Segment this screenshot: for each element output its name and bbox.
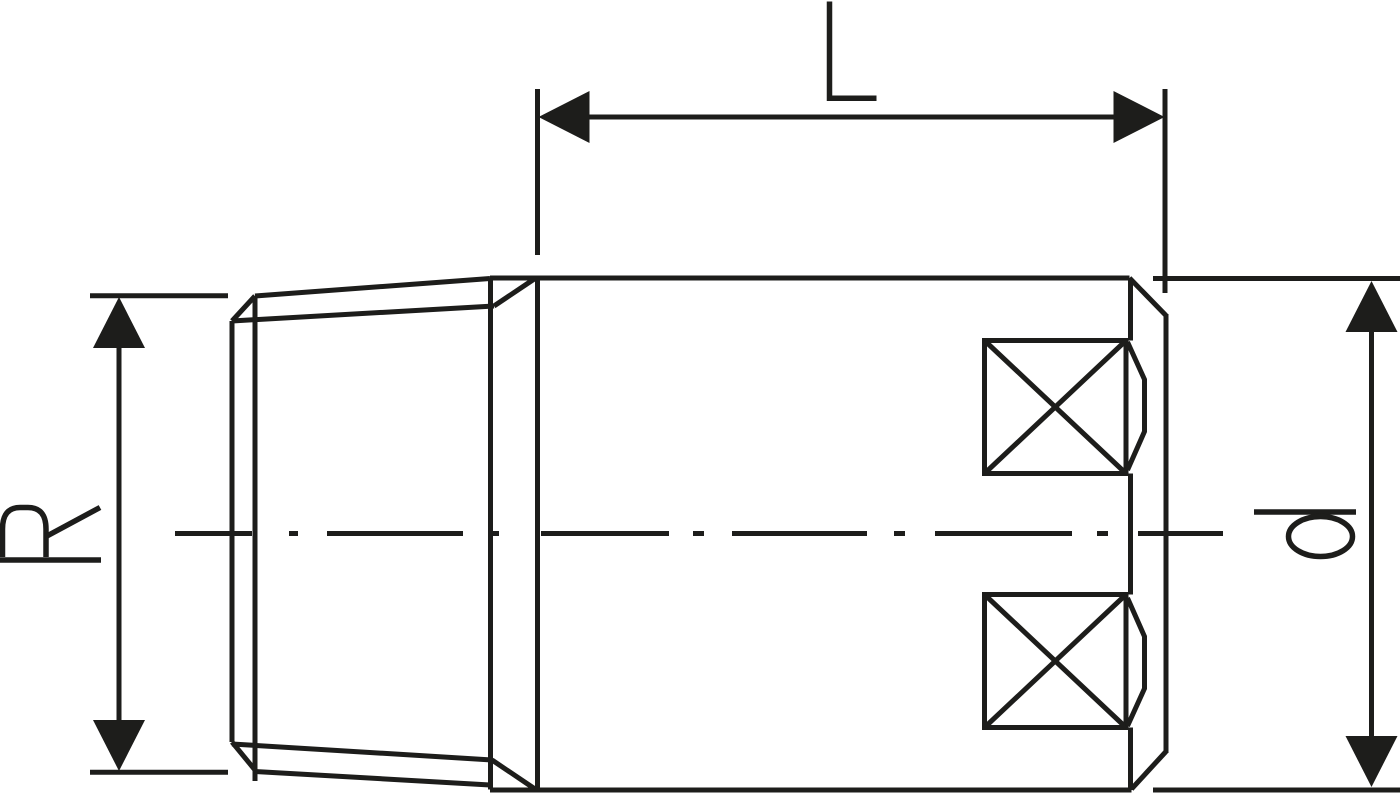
extension line R top	[90, 293, 228, 298]
dimension line L	[564, 115, 1140, 120]
extension line L right	[1163, 89, 1168, 293]
socket left edge	[535, 278, 540, 790]
thread end chamfer top	[232, 296, 255, 321]
arrowhead L left	[539, 91, 590, 143]
socket mouth edge lower	[1128, 728, 1133, 791]
arrowhead R top	[93, 297, 145, 348]
thread chamfer edge (second vertical)	[253, 296, 258, 781]
extension line L left	[535, 89, 540, 255]
socket top edge	[490, 276, 1130, 281]
thread crest line bottom	[255, 772, 490, 786]
label L	[830, 2, 877, 99]
dimension line d	[1369, 306, 1374, 762]
seal ring section upper (crossed box)	[985, 341, 1127, 474]
bore chamfer bottom	[492, 760, 535, 789]
press bead lower	[1128, 598, 1145, 726]
arrowhead L right	[1114, 91, 1165, 143]
socket bottom edge	[490, 788, 1132, 793]
arrowhead d top	[1346, 281, 1398, 332]
arrowhead R bottom	[93, 720, 145, 771]
thread end chamfer bottom	[232, 742, 255, 770]
extension line d top	[1153, 276, 1400, 281]
socket end chamfer bottom	[1132, 752, 1167, 790]
seal ring section lower (crossed box)	[985, 595, 1127, 728]
label R (rotated)	[0, 508, 101, 561]
thread root line bottom	[232, 744, 492, 760]
dimension line R	[117, 322, 122, 746]
bore chamfer top	[494, 279, 535, 307]
socket end face right	[1164, 314, 1169, 753]
socket end chamfer top	[1130, 278, 1167, 316]
socket mouth edge upper	[1128, 278, 1133, 341]
thread crest line top	[255, 279, 490, 297]
arrowhead d bottom	[1346, 736, 1398, 787]
extension line R bottom	[90, 770, 228, 775]
centre line (dash-dot)	[175, 531, 1223, 536]
label d (rotated)	[1254, 512, 1356, 557]
extension line d bottom	[1153, 788, 1400, 793]
press bead upper	[1128, 342, 1145, 470]
thread root line top	[232, 306, 494, 321]
thread end face (left vertical)	[230, 321, 235, 742]
shoulder face	[488, 279, 493, 790]
socket mouth edge middle	[1128, 474, 1133, 595]
